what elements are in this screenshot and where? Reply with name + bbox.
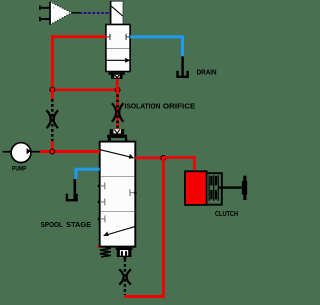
pump P1: [3, 143, 31, 163]
clutch output hub: [242, 176, 247, 200]
spool valve bottom section flow arrow: [103, 226, 136, 236]
wire: left branch red segment lower: [51, 141, 54, 152]
blocked port bottom section: [98, 216, 105, 223]
clutch plate 3: [213, 175, 215, 201]
svg-text:ORIFICE: ORIFICE: [163, 101, 196, 110]
wire: red line junction D to clutch: [163, 157, 194, 171]
blocked port right: [130, 189, 137, 196]
nozzle seat left: [106, 34, 110, 40]
clutch plate 4: [215, 176, 217, 186]
svg-text:CLUTCH: CLUTCH: [215, 209, 238, 218]
wire: electrical signal to torque motor: [80, 12, 111, 14]
wire: red drop from pilot valve port: [116, 78, 119, 90]
wire: red pilot pressure cross line: [52, 89, 117, 92]
clutch plate 5: [217, 175, 219, 201]
isolation orifice: [112, 103, 124, 121]
wire: black pump outlet stub: [31, 151, 40, 153]
node: junction B: [115, 87, 120, 92]
wire: pilot line dashes over isolation orifice: [116, 95, 119, 128]
svg-text:ISOLATION: ISOLATION: [125, 101, 161, 110]
wire: black tank drop line: [74, 179, 77, 199]
clutch output shaft: [218, 186, 246, 188]
wire: red line junction B to spool valve: [116, 90, 119, 129]
svg-text:PUMP: PUMP: [12, 166, 26, 172]
spool valve top section flow arrow: [101, 150, 135, 159]
op-amp U1 servo amplifier: [50, 2, 71, 25]
spool valve divider 1: [101, 176, 135, 178]
wire: left branch red segment upper: [51, 92, 54, 100]
spool valve divider 2: [101, 211, 135, 213]
wire: dashed pilot line below spool valve upper: [124, 259, 126, 295]
clutch piston cylinder: [185, 171, 207, 205]
wire: amplifier input lead 2: [39, 17, 50, 21]
svg-text:SPOOL: SPOOL: [41, 220, 64, 229]
nozzle seat right: [126, 34, 130, 40]
wire: red return line bottom run: [124, 295, 165, 298]
wire: amplifier input lead 1: [39, 6, 50, 10]
spool valve second stage body: [100, 142, 136, 247]
wire: left branch dashed pilot line upper: [51, 99, 53, 141]
orifice on bottom return line: [119, 269, 131, 284]
wire: red supply line to pilot valve: [52, 37, 106, 90]
torque motor: [111, 1, 123, 24]
wire: red supply line pump to spool valve: [40, 150, 100, 153]
tank reservoir left: [67, 194, 77, 201]
clutch plate 2: [210, 176, 212, 186]
wire: black drain line to tank: [181, 56, 183, 75]
blocked port left upper: [98, 183, 105, 190]
blocked port left lower: [98, 199, 105, 206]
port fitting under spool valve: [116, 248, 133, 260]
tank reservoir right: [178, 71, 188, 77]
pilot valve first stage body: [106, 25, 130, 72]
svg-text:+: +: [53, 6, 56, 11]
return spring on spool: [100, 247, 111, 257]
node: red mark at spool bottom left: [97, 246, 99, 248]
wire: amplifier output: [71, 12, 79, 14]
wire: red line spool valve to junction D: [135, 157, 163, 160]
clutch drum: [207, 173, 222, 205]
wire: red return line down right side: [162, 158, 165, 297]
port fitting on top of spool valve: [107, 129, 127, 141]
pilot valve section divider: [107, 48, 130, 50]
wire: blue return from pilot valve: [130, 37, 182, 56]
svg-text:STAGE: STAGE: [66, 220, 91, 229]
port fitting under pilot valve: [109, 72, 125, 79]
pilot valve flow arrow: [107, 58, 131, 63]
orifice on left branch: [47, 110, 59, 128]
node: junction A: [50, 87, 55, 92]
wire: blue tank line from spool valve: [76, 169, 100, 179]
svg-text:DRAIN: DRAIN: [197, 68, 217, 77]
node: junction D: [161, 155, 166, 160]
clutch plate 1: [208, 175, 210, 201]
node: junction C on pump line: [50, 149, 55, 154]
